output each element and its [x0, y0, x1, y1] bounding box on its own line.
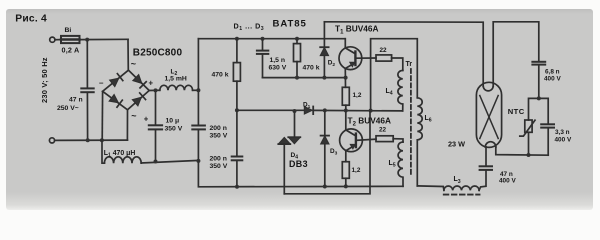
wire corner down to bridge top	[127, 39, 129, 70]
svg-text:Рис. 4: Рис. 4	[15, 14, 47, 25]
svg-text:+: +	[149, 78, 154, 87]
label 1.2 T1	[353, 92, 362, 99]
junction T1 emitter/T2 collector/mid wire	[344, 109, 348, 113]
junction diac/mid wire	[293, 109, 297, 113]
label NTC	[508, 107, 525, 116]
diode D3 BAT85	[321, 110, 329, 186]
label lamp power 23W	[448, 139, 465, 148]
thermistor NTC	[520, 120, 535, 155]
svg-text:B250C800: B250C800	[133, 47, 183, 58]
label - bridge	[99, 79, 104, 88]
junction 470k2/emitter wire	[295, 76, 299, 80]
svg-text:1,5 mH: 1,5 mH	[165, 76, 187, 83]
svg-text:400 V: 400 V	[555, 136, 572, 143]
wire lamp top right to 6.8n	[493, 22, 539, 86]
svg-text:230 V; 50 Hz: 230 V; 50 Hz	[40, 57, 49, 103]
capacitor C 200n lower	[232, 110, 243, 187]
label 22 T1	[380, 47, 388, 54]
bridge rectifier B250C800 diamond	[103, 70, 150, 110]
label mains 230V 50Hz	[40, 57, 49, 103]
junction +/10u	[154, 88, 158, 92]
junction rail/1.5n	[261, 37, 265, 41]
label 350V upper	[210, 132, 228, 139]
junction D3/mid wire	[323, 108, 327, 112]
junction L1/left rail	[196, 159, 200, 163]
svg-text:+: +	[144, 114, 149, 123]
label 470k second	[303, 65, 320, 72]
junction rail/470k2	[295, 37, 299, 41]
svg-text:22: 22	[379, 126, 387, 133]
svg-text:~: ~	[131, 111, 136, 121]
label L4	[386, 88, 393, 97]
label DB3	[289, 159, 308, 169]
label ~ top	[131, 59, 136, 69]
resistor 22 (T1 base)	[376, 55, 403, 71]
svg-text:1,2: 1,2	[352, 167, 361, 174]
wire left vertex down	[101, 92, 103, 141]
fuse Bi	[61, 36, 80, 43]
lamp tube 23W	[476, 82, 501, 147]
svg-text:Tr: Tr	[406, 61, 413, 68]
wire fuse to bridge corner	[80, 38, 129, 40]
label 47n input	[69, 97, 83, 104]
svg-text:630 V: 630 V	[269, 64, 287, 71]
label 6.8n	[545, 68, 560, 75]
capacitor C 47n lamp	[480, 147, 492, 170]
resistor 1.2 (T2 emitter)	[342, 162, 349, 187]
junction fuse/47n	[85, 38, 89, 42]
svg-text:250 V~: 250 V~	[57, 105, 79, 112]
label D4	[291, 152, 299, 161]
label BAT85	[273, 19, 307, 30]
wire L6 to L3	[417, 186, 444, 190]
junction L1/10u	[154, 160, 158, 164]
label L2	[171, 69, 178, 78]
capacitor C 1.5n 630V	[257, 39, 268, 78]
label 3.3n	[555, 129, 570, 136]
label 350V lower	[210, 163, 228, 170]
label D1...D3	[234, 21, 265, 32]
resistor 22 (T2 base)	[376, 136, 403, 142]
svg-text:400 V: 400 V	[499, 178, 516, 185]
svg-text:1,5 n: 1,5 n	[270, 57, 286, 64]
svg-text:1,2: 1,2	[353, 92, 362, 99]
label 22 T2	[379, 126, 387, 133]
svg-text:NTC: NTC	[508, 107, 525, 116]
label 250V	[57, 105, 79, 112]
label L5	[389, 160, 396, 169]
svg-text:3,3 n: 3,3 n	[555, 129, 570, 136]
label 47n lamp voltage	[499, 178, 516, 185]
junction T2 emitter/bottom rail	[344, 184, 348, 188]
label 200n lower	[210, 156, 227, 163]
svg-text:200 n: 200 n	[210, 125, 227, 132]
inductor L2 1.5mH	[160, 85, 199, 90]
capacitor C 10u electrolytic	[149, 90, 162, 161]
label + bridge	[149, 78, 154, 87]
bridge diode bottom-left	[109, 94, 122, 107]
junction 47n/bottom wire	[86, 138, 90, 142]
label 470k first	[212, 71, 229, 78]
bridge diode top-left	[110, 74, 123, 87]
junction emitter wire/T1 emitter	[344, 76, 348, 80]
svg-text:Bi: Bi	[65, 27, 72, 34]
label D2	[328, 60, 336, 69]
transistor T1 BUV46A	[339, 39, 376, 88]
label 47n lamp	[500, 171, 513, 178]
svg-text:350 V: 350 V	[165, 126, 183, 133]
label 6.8n voltage	[544, 76, 561, 83]
label ~ bottom	[131, 111, 136, 121]
capacitor C 47n input	[81, 40, 93, 141]
wire NTC 3.3n top node	[529, 98, 549, 124]
junction rail/470k1	[235, 37, 239, 41]
label T2 BUV46A	[348, 116, 391, 128]
diode D1 BAT85	[237, 107, 403, 115]
wire left rail upper	[197, 39, 199, 126]
label Tr	[406, 61, 413, 68]
svg-text:10 μ: 10 μ	[166, 117, 180, 124]
svg-text:200 n: 200 n	[210, 156, 227, 163]
transistor T2 BUV46A	[340, 111, 376, 162]
wire top rail	[198, 38, 344, 40]
bridge diode top-right	[133, 75, 146, 88]
inductor L6 winding	[417, 98, 422, 186]
label 1.5n	[270, 57, 286, 64]
junction D2/emitter wire	[322, 76, 326, 80]
svg-text:0,2 A: 0,2 A	[62, 45, 80, 54]
label + 10u	[144, 114, 149, 123]
capacitor C 6.8n 400V	[532, 62, 545, 99]
bridge diode bottom-right	[132, 93, 145, 106]
label L2 value	[165, 76, 187, 83]
wire diac return to mid node	[284, 111, 370, 194]
junction D3/bottom rail	[323, 185, 327, 189]
svg-text:350 V: 350 V	[210, 132, 228, 139]
capacitor C 200n upper	[192, 126, 205, 130]
diode D2 BAT85	[320, 22, 328, 78]
label T1 BUV46A	[335, 24, 378, 36]
label D1	[303, 101, 311, 110]
inductor L3 winding	[444, 170, 486, 190]
terminal input N (bottom)	[49, 138, 54, 143]
svg-text:BAT85: BAT85	[273, 19, 307, 30]
svg-text:22: 22	[380, 47, 388, 54]
resistor 470k first	[233, 39, 240, 111]
terminal input L (top)	[50, 37, 55, 42]
label L3	[454, 176, 461, 185]
label B250C800	[133, 47, 183, 58]
label D3	[330, 148, 338, 157]
junction L2/left rail	[196, 88, 200, 92]
svg-text:350 V: 350 V	[210, 163, 228, 170]
wire lamp bottom right to NTC/3.3n	[496, 147, 548, 155]
capacitor C 3.3n 400V	[541, 124, 554, 155]
label 10u	[166, 117, 180, 124]
transformer Tr core	[410, 69, 412, 177]
wire left rail lower	[198, 130, 403, 187]
svg-text:DB3: DB3	[289, 159, 308, 169]
wire feedback top link	[371, 39, 418, 111]
wire upper lamp feed from D2	[324, 22, 483, 86]
svg-text:~: ~	[131, 59, 136, 69]
wire corner up to bridge bottom vertex	[126, 110, 128, 140]
svg-text:47 n: 47 n	[69, 97, 83, 104]
resistor 1.2 (T1 emitter)	[342, 87, 349, 110]
svg-text:D1 ... D3: D1 ... D3	[234, 21, 265, 32]
svg-text:6,8 n: 6,8 n	[545, 68, 560, 75]
inductor L1 470uH	[102, 140, 198, 163]
svg-text:470 k: 470 k	[303, 65, 320, 72]
label 3.3n voltage	[555, 136, 572, 143]
junction NTC/bottom wire	[527, 153, 531, 157]
svg-text:400 V: 400 V	[544, 76, 561, 83]
label figure caption	[15, 14, 47, 25]
svg-text:23 W: 23 W	[448, 139, 465, 148]
svg-text:470 k: 470 k	[212, 71, 229, 78]
junction mid wire/feedback vertical	[369, 109, 373, 113]
junction 200n2/bottom rail	[235, 185, 239, 189]
label 10u voltage	[165, 126, 183, 133]
wire bottom input	[55, 139, 128, 141]
inductor L4 winding	[398, 70, 403, 111]
wire terminal to fuse	[55, 39, 61, 41]
label fuse Bi	[65, 27, 72, 34]
inductor L3 core	[444, 194, 480, 196]
diac D4 DB3	[278, 112, 300, 194]
wire bridge + output	[149, 89, 160, 91]
resistor 470k second	[294, 39, 301, 78]
label 630V	[269, 64, 287, 71]
inductor L5 winding	[398, 142, 403, 186]
junction left-vertex / input wire / L1	[100, 138, 104, 142]
label L1 value	[104, 150, 136, 159]
junction 470k1/mid wire	[235, 108, 239, 112]
junction 6.8n/NTC node	[537, 96, 541, 100]
wire emitter net T1	[263, 77, 346, 79]
svg-text:–: –	[99, 79, 104, 88]
label 200n upper	[210, 125, 227, 132]
label 1.2 T2	[352, 167, 361, 174]
label L6	[425, 115, 432, 124]
label fuse rating	[62, 45, 80, 54]
